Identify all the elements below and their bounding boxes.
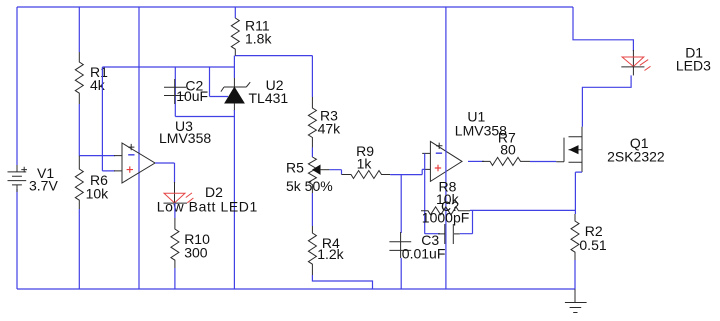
op-amp U1 — [422, 109, 507, 182]
wire R5 wiper to R9 — [329, 170, 341, 175]
resistor R2 — [571, 214, 607, 260]
svg-text:1.8k: 1.8k — [245, 31, 272, 47]
capacitor C2 — [164, 78, 208, 105]
shunt regulator U2 TL431 — [221, 77, 289, 111]
wire C2 bottom rail y116.5 — [175, 116, 234, 118]
potentiometer R5 — [286, 148, 333, 195]
wire C3 bottom to rail — [400, 258, 402, 289]
wire U3 output to D2 — [155, 163, 175, 183]
wire U1 minus feedback drop — [425, 153, 440, 233]
wire R4 bottom jog to rail — [312, 275, 372, 289]
wire U2 anode to bottom rail — [233, 110, 235, 289]
wire U2 cathode stub — [233, 56, 235, 78]
svg-text:2SK2322: 2SK2322 — [607, 149, 665, 165]
resistor R9 — [342, 143, 391, 179]
svg-text:300: 300 — [184, 245, 208, 261]
svg-text:0.51: 0.51 — [579, 237, 606, 253]
wire R7 to gate — [530, 161, 556, 163]
ground — [565, 289, 587, 313]
resistor R8 — [421, 179, 470, 215]
wire R1 to R6 junction and minus input — [79, 104, 115, 156]
wire battery minus to bottom rail — [16, 189, 18, 289]
wire R1 branch from top rail — [78, 7, 80, 52]
wire R11 top — [234, 7, 236, 18]
resistor R7 — [482, 130, 530, 166]
wire C2 branch vertical — [174, 67, 176, 117]
resistor R4 — [308, 226, 344, 275]
svg-text:10uF: 10uF — [176, 88, 208, 104]
svg-text:LMV358: LMV358 — [159, 130, 211, 146]
wire C1 right to R8 right — [460, 210, 473, 233]
wire R10 to rail — [174, 268, 176, 289]
resistor R11 — [231, 18, 272, 56]
wire U1 output — [468, 160, 484, 162]
wire bottom ground rail — [17, 288, 575, 290]
op-amp U3 — [114, 118, 211, 183]
wire R6 bottom to rail — [78, 209, 80, 289]
wire C3 branch — [400, 175, 402, 233]
wire U1 supply vertical — [445, 7, 447, 289]
wire top rail drop to D1 — [573, 7, 633, 51]
svg-text:R5: R5 — [286, 160, 304, 176]
resistor R6 — [75, 156, 109, 209]
resistor R1 — [75, 52, 108, 104]
svg-text:TL431: TL431 — [249, 90, 289, 106]
resistor R3 — [308, 97, 341, 148]
svg-text:10k: 10k — [86, 186, 110, 202]
svg-text:1000pF: 1000pF — [422, 210, 469, 226]
resistor R10 — [171, 218, 210, 268]
wire 2.5V ref rail y67 — [102, 66, 234, 68]
svg-text:47k: 47k — [318, 121, 342, 137]
LED D2 — [157, 182, 258, 215]
wire U3 supply vertical — [138, 7, 140, 289]
wire R9 to U1 plus input — [390, 169, 424, 174]
LED D1 — [621, 45, 711, 76]
wire R11 rail y55.6 to R3 — [235, 56, 312, 97]
wire TL431 ref — [210, 67, 229, 97]
capacitor C3 — [389, 232, 445, 262]
svg-text:Low Batt LED1: Low Batt LED1 — [157, 199, 258, 215]
wire left rail top (battery plus lead) — [16, 7, 18, 165]
svg-text:1k: 1k — [357, 156, 373, 172]
svg-text:5k 50%: 5k 50% — [286, 178, 333, 194]
wire ref drop to U3 plus input — [102, 67, 115, 171]
wire R8 node to current sense — [470, 209, 575, 211]
wire R5 bottom to R4 — [311, 193, 313, 226]
mosfet Q1 — [556, 127, 665, 172]
svg-text:3.7V: 3.7V — [29, 178, 58, 194]
wire R2 bottom to rail — [574, 260, 576, 289]
wire top rail — [17, 6, 573, 8]
svg-text:1.2k: 1.2k — [317, 246, 344, 262]
capacitor C1 1000pF — [422, 198, 469, 244]
svg-text:4k: 4k — [90, 77, 106, 93]
svg-text:80: 80 — [500, 142, 516, 158]
svg-text:LED3: LED3 — [676, 58, 711, 74]
wire D1 to Q1 drain — [582, 75, 631, 126]
battery V1 — [8, 165, 59, 194]
wire Q1 source jog to R2 — [575, 172, 582, 214]
wire D2 to R10 — [174, 203, 176, 218]
svg-text:0.01uF: 0.01uF — [402, 246, 446, 262]
